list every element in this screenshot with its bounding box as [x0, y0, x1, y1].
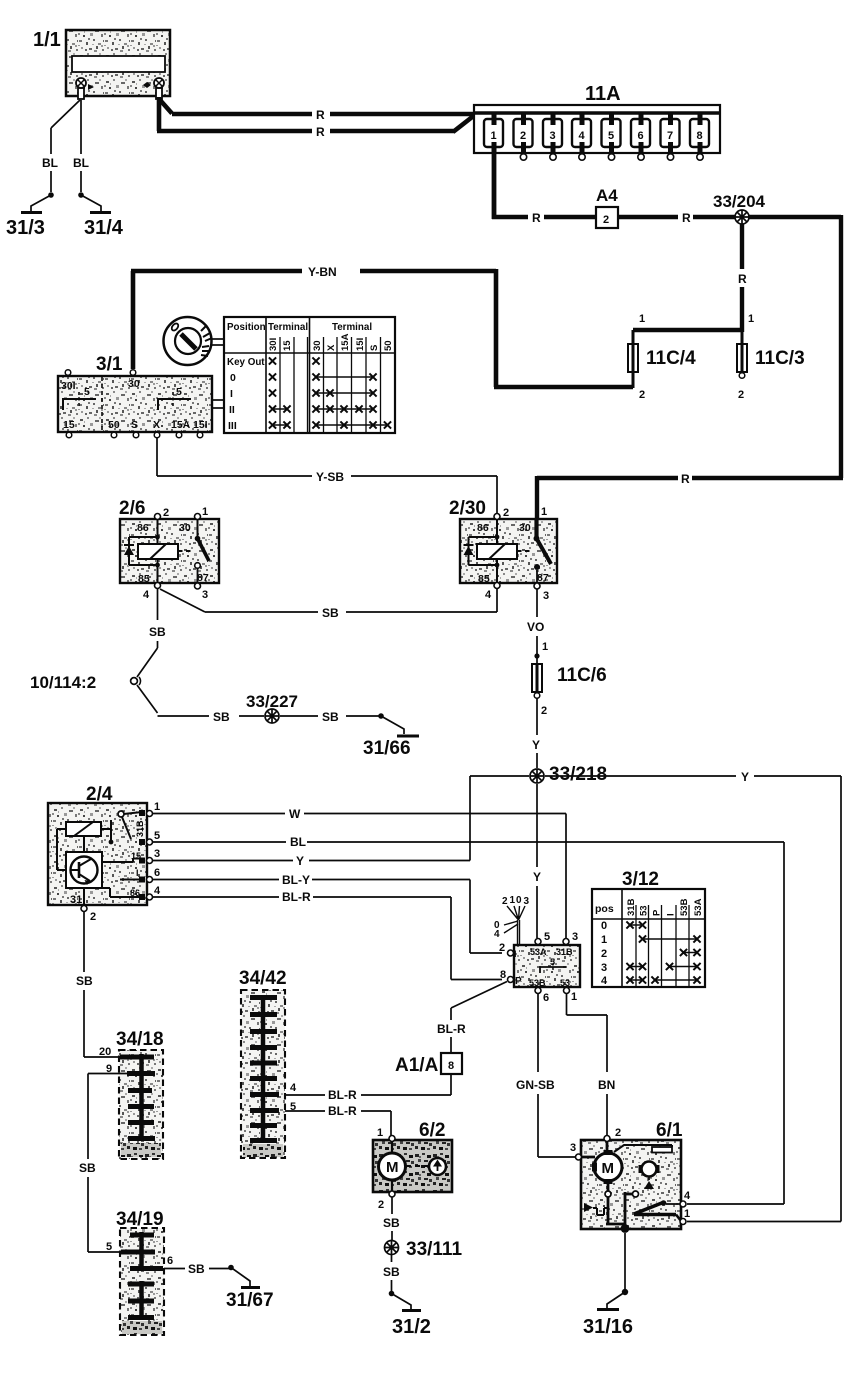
svg-text:1: 1	[510, 895, 516, 906]
svg-text:III: III	[228, 420, 237, 432]
svg-text:0: 0	[601, 920, 607, 932]
wire R 33/204 to right edge and down to relay 2/30 pin 1	[537, 215, 843, 520]
svg-text:Y: Y	[741, 770, 749, 784]
svg-text:30: 30	[519, 522, 531, 534]
svg-text:33/111: 33/111	[406, 1239, 462, 1260]
wire SB junction 33/111 to ground 31/2	[391, 1255, 393, 1292]
svg-text:R: R	[316, 108, 325, 122]
svg-text:I: I	[136, 868, 139, 878]
fuse 8 (11A)	[690, 112, 709, 160]
svg-text:2: 2	[163, 507, 169, 519]
svg-text:3: 3	[601, 962, 607, 974]
ignition key dial	[164, 317, 225, 365]
wire BN wiper switch pin 1 to wiper motor 6/1 pin 2	[567, 994, 608, 1135]
svg-text:BL: BL	[73, 156, 89, 170]
svg-text:Y-BN: Y-BN	[308, 265, 337, 279]
svg-text:R: R	[682, 211, 691, 225]
svg-text:31/3: 31/3	[6, 217, 45, 239]
svg-text:53A: 53A	[530, 947, 547, 957]
motor M (6/1)	[594, 1153, 622, 1181]
svg-text:31B: 31B	[556, 947, 573, 957]
fuse 2 (11A)	[514, 112, 533, 160]
ground 31/4	[78, 192, 124, 239]
svg-text:85: 85	[478, 573, 490, 585]
svg-text:30I: 30I	[268, 338, 279, 351]
fuse 1 (11A)	[484, 112, 503, 152]
transistor (2/4)	[71, 857, 98, 886]
svg-text:34/42: 34/42	[239, 968, 287, 989]
svg-text:M: M	[386, 1159, 399, 1176]
svg-text:2: 2	[502, 896, 508, 907]
wire R battery to fuse box 11A (upper run)	[160, 100, 476, 114]
fuse 5 (11A)	[602, 112, 621, 160]
svg-text:87: 87	[197, 572, 209, 584]
contact (2/30)	[534, 518, 538, 537]
svg-text:3: 3	[202, 589, 208, 601]
motor M (6/2)	[379, 1153, 406, 1180]
fuse 11C/3	[737, 313, 805, 401]
svg-text:0: 0	[516, 895, 522, 906]
park contact switch (6/1)	[634, 1203, 663, 1215]
contact (2/6)	[197, 519, 199, 537]
svg-text:SB: SB	[322, 710, 339, 724]
svg-text:87: 87	[537, 572, 549, 584]
ground 31/16	[583, 1289, 633, 1338]
fuse 3 (11A)	[543, 112, 562, 160]
junction 33/111	[385, 1239, 463, 1260]
svg-text:15I: 15I	[355, 338, 366, 351]
svg-text:33/227: 33/227	[246, 692, 298, 711]
fuse 11C/4	[628, 313, 696, 401]
svg-text:5: 5	[106, 1241, 112, 1253]
svg-text:15: 15	[63, 419, 75, 431]
svg-text:Terminal: Terminal	[268, 322, 308, 333]
svg-text:8: 8	[448, 1060, 454, 1072]
svg-text:Terminal: Terminal	[332, 322, 372, 333]
svg-text:11C/3: 11C/3	[755, 348, 805, 369]
svg-text:5: 5	[290, 1101, 296, 1113]
junction 33/227	[246, 692, 298, 723]
svg-text:2: 2	[503, 507, 509, 519]
svg-text:Y-SB: Y-SB	[316, 470, 344, 484]
svg-text:1: 1	[542, 641, 548, 653]
wire BL 2/4 pin 5 to wiper motor 6/1 pin 4	[153, 842, 784, 1204]
wire Y 2/4 pin 3 to junction 33/218 and 6/1 pin 1	[153, 776, 841, 1222]
wire BL-R connector A1/A to 34/42 pin 4	[277, 1074, 451, 1095]
svg-text:5: 5	[176, 386, 182, 398]
motor lower path (6/1)	[607, 1181, 610, 1191]
svg-text:A1/A: A1/A	[395, 1055, 439, 1076]
svg-text:BL-R: BL-R	[328, 1088, 357, 1102]
svg-text:7: 7	[667, 130, 673, 142]
svg-text:GN-SB: GN-SB	[516, 1078, 555, 1092]
svg-text:10/114:2: 10/114:2	[30, 673, 96, 692]
svg-text:6: 6	[167, 1255, 173, 1267]
svg-text:P: P	[515, 976, 522, 987]
svg-text:SB: SB	[322, 606, 339, 620]
svg-text:2: 2	[615, 1127, 621, 1139]
svg-text:SB: SB	[383, 1216, 400, 1230]
wire link 11C/4 pin1 to 11C/3 pin1	[633, 328, 742, 332]
svg-text:2: 2	[541, 705, 547, 717]
wire R fuse1 to A4 to 33/204	[492, 215, 735, 219]
svg-text:4: 4	[485, 589, 492, 601]
svg-text:3: 3	[550, 130, 556, 142]
svg-text:Position: Position	[227, 322, 266, 333]
svg-text:M: M	[602, 1160, 615, 1177]
svg-text:86: 86	[477, 522, 489, 534]
svg-text:4: 4	[143, 589, 150, 601]
svg-text:20: 20	[99, 1046, 111, 1058]
svg-text:BL-R: BL-R	[328, 1104, 357, 1118]
svg-text:R: R	[738, 272, 747, 286]
svg-text:53B: 53B	[529, 978, 546, 988]
svg-text:4: 4	[684, 1190, 691, 1202]
wire VO relay 2/30 pin 3 to fuse 11C/6	[536, 589, 538, 655]
battery 1/1	[33, 29, 170, 99]
svg-text:2: 2	[90, 911, 96, 923]
ignition switch 3/1	[58, 354, 212, 438]
wire GN-SB wiper switch pin 6 to wiper motor 6/1 pin 3	[538, 994, 576, 1157]
wire SB 6/2 pin 2 to junction 33/111	[391, 1197, 393, 1240]
svg-text:BL: BL	[42, 156, 58, 170]
wire SB 10/114:2 to ground 31/66	[137, 685, 381, 716]
svg-text:86: 86	[137, 522, 149, 534]
svg-text:2/6: 2/6	[119, 498, 145, 519]
diode (2/30)	[464, 546, 474, 555]
svg-text:S: S	[131, 419, 138, 431]
svg-text:SB: SB	[213, 710, 230, 724]
svg-text:30: 30	[128, 378, 140, 390]
ground 31/67	[226, 1265, 274, 1311]
svg-text:53: 53	[560, 978, 570, 988]
svg-text:R: R	[681, 472, 690, 486]
wire BL-R 34/42 pin 5 to washer pump 6/2 pin 1	[277, 1111, 391, 1136]
wiper motor 6/1	[570, 1120, 691, 1233]
svg-text:31/2: 31/2	[392, 1316, 431, 1338]
park switch cam (6/1)	[642, 1162, 657, 1177]
svg-text:SB: SB	[188, 1262, 205, 1276]
wire Y fuse 11C/6 to junction 33/218	[536, 699, 538, 769]
svg-text:6/2: 6/2	[419, 1120, 445, 1141]
svg-text:2: 2	[603, 214, 609, 226]
svg-text:3: 3	[572, 931, 578, 943]
svg-text:31/4: 31/4	[84, 217, 124, 239]
svg-text:I: I	[230, 388, 233, 400]
wire Y-BN ignition 3/1 terminal 30 to 11C/4 pin 2	[131, 269, 633, 387]
svg-text:1: 1	[601, 934, 607, 946]
svg-text:34/19: 34/19	[116, 1209, 164, 1230]
relay 2/30	[449, 498, 557, 602]
svg-text:11C/6: 11C/6	[557, 665, 607, 686]
svg-text:Y: Y	[296, 854, 304, 868]
relay 2/6	[119, 498, 219, 601]
svg-text:53A: 53A	[693, 898, 704, 916]
battery negative terminal	[76, 78, 86, 99]
svg-text:1: 1	[748, 313, 754, 325]
svg-text:5: 5	[608, 130, 614, 142]
svg-text:SB: SB	[79, 1161, 96, 1175]
connector A1/A	[395, 1053, 462, 1076]
connector A4	[596, 186, 618, 228]
svg-text:30I: 30I	[61, 380, 76, 392]
svg-text:50: 50	[108, 419, 120, 431]
svg-text:15: 15	[282, 340, 293, 351]
wire BL-R wiper switch pin 8 to connector A1/A	[451, 982, 507, 1054]
svg-text:31B: 31B	[135, 820, 145, 837]
connector 10/114:2	[30, 673, 141, 692]
svg-text:15A: 15A	[340, 333, 351, 351]
svg-text:0: 0	[230, 372, 236, 384]
svg-text:31/67: 31/67	[226, 1290, 274, 1311]
svg-text:1: 1	[154, 801, 160, 813]
battery positive terminal	[154, 78, 164, 99]
svg-text:2: 2	[378, 1199, 384, 1211]
ground 31/3	[6, 192, 54, 239]
svg-text:W: W	[289, 807, 301, 821]
wire R 33/204 down to fuse 11C/3	[740, 224, 744, 332]
svg-text:1: 1	[541, 506, 547, 518]
svg-text:31/66: 31/66	[363, 738, 411, 759]
washer nozzle symbol (6/2)	[429, 1158, 446, 1175]
svg-text:6/1: 6/1	[656, 1120, 683, 1141]
wire SB 34/19 pin 6 to ground 31/67	[164, 1268, 231, 1270]
wire SB 2/4 pin 2 down to 34/18 pin 20	[84, 912, 121, 1057]
svg-text:4: 4	[601, 975, 608, 987]
wire BL battery to ground 31/4	[80, 100, 82, 192]
svg-text:A4: A4	[596, 186, 618, 205]
wire SB 34/18 pin 9 to 34/19 pin 5	[88, 1074, 130, 1253]
fuse 7 (11A)	[661, 112, 680, 160]
svg-text:11C/4: 11C/4	[646, 348, 696, 369]
svg-text:BL-R: BL-R	[282, 890, 311, 904]
svg-text:SB: SB	[76, 974, 93, 988]
svg-text:1: 1	[571, 991, 577, 1003]
svg-text:II: II	[229, 404, 235, 416]
svg-text:2: 2	[499, 942, 505, 954]
flasher unit 2/4	[48, 784, 161, 923]
svg-text:I: I	[666, 913, 677, 916]
svg-text:4: 4	[290, 1082, 297, 1094]
wire Y junction 33/218 down to wiper switch pin 5	[536, 784, 538, 938]
switch table 3/12	[592, 869, 705, 987]
svg-text:31/16: 31/16	[583, 1316, 633, 1338]
svg-text:SB: SB	[383, 1265, 400, 1279]
svg-text:5: 5	[544, 931, 550, 943]
svg-text:34/18: 34/18	[116, 1029, 164, 1050]
wire links 3/1 box to position table	[212, 399, 224, 401]
svg-text:Key Out: Key Out	[227, 357, 265, 368]
svg-text:3: 3	[570, 1142, 576, 1154]
svg-text:30: 30	[312, 340, 323, 351]
connector 34/18	[99, 1029, 164, 1159]
svg-text:1: 1	[639, 313, 645, 325]
connector 34/42	[239, 968, 297, 1158]
svg-text:31: 31	[70, 894, 82, 906]
svg-text:33/218: 33/218	[549, 764, 607, 785]
svg-text:30: 30	[179, 522, 191, 534]
fuse 11C/6	[532, 656, 607, 717]
svg-text:50: 50	[383, 340, 394, 351]
svg-text:X: X	[326, 344, 337, 351]
washer pump 6/2	[373, 1120, 452, 1211]
svg-text:2: 2	[601, 948, 607, 960]
wire BL-Y 2/4 pin 6 to wiper switch pin 2	[153, 880, 502, 954]
svg-text:3: 3	[543, 590, 549, 602]
fuse box 11A	[474, 83, 720, 153]
wire BL battery to ground 31/3	[51, 100, 80, 192]
svg-text:2: 2	[639, 389, 645, 401]
junction 33/204	[713, 192, 766, 224]
svg-text:Y: Y	[532, 738, 540, 752]
wire R fuse 1 down	[492, 145, 497, 219]
wiper switch 3/12 connector box	[499, 931, 580, 1004]
svg-text:11A: 11A	[585, 83, 621, 105]
svg-text:4: 4	[494, 929, 500, 940]
svg-text:SB: SB	[149, 625, 166, 639]
internal wire and resistor (6/1)	[614, 1145, 672, 1152]
svg-text:S: S	[369, 345, 380, 351]
svg-text:1: 1	[684, 1208, 690, 1220]
wire R battery to fuse box 11A (lower run)	[157, 97, 476, 132]
svg-text:15I: 15I	[193, 419, 208, 431]
svg-text:5: 5	[84, 386, 90, 398]
ground 31/66	[363, 713, 419, 759]
wiper switch position fan	[494, 895, 530, 945]
svg-text:2: 2	[738, 389, 744, 401]
svg-text:5: 5	[154, 830, 160, 842]
svg-text:1: 1	[377, 1127, 383, 1139]
svg-text:X: X	[153, 419, 160, 431]
svg-text:BL-R: BL-R	[437, 1022, 466, 1036]
svg-text:4: 4	[579, 130, 586, 142]
wire BL-R 2/4 pin 4 to wiper switch pin 8	[153, 897, 502, 980]
wire W 2/4 pin 1 to wiper switch pin 3	[153, 814, 566, 939]
diode (2/6)	[124, 546, 134, 555]
svg-text:BN: BN	[598, 1078, 615, 1092]
svg-text:6: 6	[638, 130, 644, 142]
svg-text:1: 1	[491, 130, 497, 142]
svg-text:R: R	[532, 211, 541, 225]
svg-text:2/30: 2/30	[449, 498, 486, 519]
svg-text:8: 8	[500, 969, 506, 981]
ignition position table	[224, 317, 395, 433]
svg-text:33/204: 33/204	[713, 192, 766, 211]
svg-text:3: 3	[524, 896, 530, 907]
svg-text:VO: VO	[527, 620, 544, 634]
wire Y-SB ignition X terminal to relay 2/30 pin 2	[157, 438, 497, 513]
svg-text:85: 85	[138, 573, 150, 585]
fuse 4 (11A)	[572, 112, 591, 160]
svg-text:2: 2	[520, 130, 526, 142]
svg-text:15A: 15A	[171, 419, 191, 431]
junction 33/218	[530, 764, 607, 785]
svg-text:pos: pos	[595, 903, 614, 915]
svg-text:3/12: 3/12	[622, 869, 659, 890]
fuse 6 (11A)	[631, 112, 650, 160]
svg-text:R: R	[316, 125, 325, 139]
wire SB relay 2/6 pin 4 to relay 2/30 pin 4	[160, 589, 497, 612]
svg-text:I: I	[514, 949, 517, 959]
svg-text:6: 6	[543, 992, 549, 1004]
svg-text:BL: BL	[290, 835, 306, 849]
svg-text:3/1: 3/1	[96, 354, 123, 375]
svg-text:6: 6	[154, 867, 160, 879]
thermal breaker (6/1)	[584, 1203, 593, 1212]
svg-text:4: 4	[154, 885, 161, 897]
svg-text:BL-Y: BL-Y	[282, 873, 310, 887]
svg-text:1: 1	[202, 506, 208, 518]
connector 34/19	[106, 1209, 173, 1335]
svg-text:8: 8	[697, 130, 703, 142]
wire SB relay 2/6 pin 4 down to 10/114:2	[137, 589, 158, 677]
wire 6/1 bottom to ground 31/16	[624, 1233, 626, 1290]
svg-text:Y: Y	[533, 870, 541, 884]
svg-text:3: 3	[154, 848, 160, 860]
ground 31/2	[389, 1291, 431, 1338]
svg-text:1/1: 1/1	[33, 29, 61, 51]
